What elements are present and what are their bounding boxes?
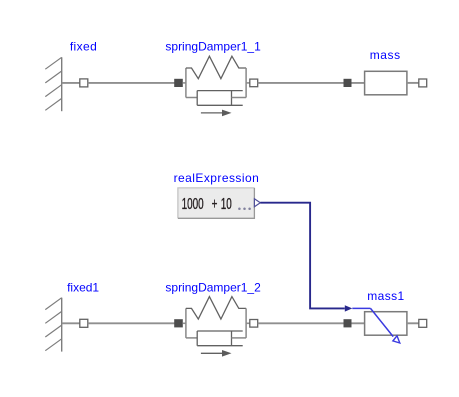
fixed1 hatch 1 — [45, 298, 61, 310]
svg-text:+: + — [212, 195, 218, 213]
mass flange_b stub — [407, 82, 419, 84]
springDamper1_1 piston rod — [232, 97, 247, 99]
force icon horizontal segment — [352, 307, 370, 309]
springDamper1_1 damper left link — [186, 97, 197, 99]
springDamper1_1 — [174, 56, 258, 116]
springDamper1_2 piston rod — [232, 337, 247, 339]
fixed1 hatch 2 — [45, 311, 61, 323]
springDamper1_2 flange_a square — [174, 319, 183, 327]
signal wire arrowhead — [345, 305, 353, 311]
springDamper1_2 left frame — [185, 308, 187, 338]
springDamper1_1 right frame — [245, 68, 247, 98]
svg-text:realExpression: realExpression — [174, 171, 260, 185]
wire fixed1 to springDamper1_2 — [88, 322, 176, 324]
springDamper1_1 direction arrow shaft — [201, 112, 222, 114]
springDamper1_2 direction arrow head — [222, 350, 232, 357]
svg-text:10: 10 — [221, 195, 232, 213]
svg-text:fixed: fixed — [70, 39, 97, 53]
mass1 body — [365, 312, 407, 336]
force icon open arrowhead — [393, 336, 400, 343]
springDamper1_2 cylinder top — [197, 330, 243, 332]
svg-text:springDamper1_2: springDamper1_2 — [165, 281, 261, 295]
svg-text:springDamper1_1: springDamper1_1 — [165, 39, 261, 53]
fixed flange square — [80, 79, 88, 87]
realExpression ellipsis dots — [238, 208, 241, 211]
springDamper1_1 cylinder bottom — [197, 104, 243, 106]
svg-text:mass: mass — [370, 48, 401, 62]
mass1 flange_b stub — [407, 322, 419, 324]
springDamper1_2 damper left link — [186, 337, 197, 339]
springDamper1_2 direction arrow shaft — [201, 352, 222, 354]
springDamper1_1 left frame — [185, 68, 187, 98]
springDamper1_2 cylinder bottom — [197, 345, 243, 347]
fixed wall line — [61, 57, 63, 111]
fixed1 hatch 3 — [45, 325, 61, 337]
fixed1 wall line — [61, 298, 63, 352]
svg-text:fixed1: fixed1 — [67, 281, 99, 295]
mass body — [365, 71, 407, 95]
springDamper1_1 flange_a square — [174, 79, 183, 87]
mass1 flange_a square — [344, 319, 352, 327]
mass flange_b square — [419, 79, 427, 87]
springDamper1_1 left stub — [183, 82, 186, 84]
fixed1 flange square — [80, 319, 88, 327]
force icon diagonal shaft — [371, 308, 394, 336]
springDamper1_1 direction arrow head — [222, 110, 232, 117]
springDamper1_1 spring — [186, 56, 246, 78]
wire fixed1 stub — [62, 322, 80, 324]
springDamper1_2 flange_b square — [250, 320, 258, 328]
mass flange_a square — [344, 79, 352, 87]
springDamper1_2 spring — [186, 297, 246, 320]
springDamper1_1 flange_b square — [250, 79, 258, 87]
wire springDamper1_1 to mass — [258, 82, 365, 84]
springDamper1_1 cylinder top — [197, 90, 243, 92]
wire realExpression to force input (signal) — [260, 203, 345, 309]
wire fixed to springDamper1_1 — [88, 82, 176, 84]
wire fixed stub — [62, 82, 80, 84]
realExpression block — [178, 188, 255, 218]
springDamper1_1 right stub — [246, 82, 250, 84]
springDamper1_1 cylinder left wall — [196, 91, 198, 106]
springDamper1_2 right stub — [246, 322, 250, 324]
svg-text:mass1: mass1 — [367, 289, 404, 303]
fixed hatch 3 — [45, 85, 61, 97]
fixed hatch 2 — [45, 71, 61, 83]
springDamper1_2 left stub — [183, 322, 186, 324]
fixed1 hatch 4 — [45, 339, 61, 351]
svg-text:1000: 1000 — [182, 195, 204, 213]
springDamper1_2 piston plate — [231, 331, 233, 346]
fixed hatch 1 — [45, 57, 61, 69]
springDamper1_2 — [174, 297, 258, 357]
fixed hatch 4 — [45, 98, 61, 110]
mass1 flange_b square — [419, 319, 427, 327]
springDamper1_1 piston plate — [231, 91, 233, 106]
springDamper1_2 cylinder left wall — [196, 331, 198, 346]
springDamper1_2 right frame — [245, 308, 247, 338]
wire springDamper1_2 to mass1 — [258, 322, 365, 324]
realExpression output connector — [254, 199, 260, 207]
